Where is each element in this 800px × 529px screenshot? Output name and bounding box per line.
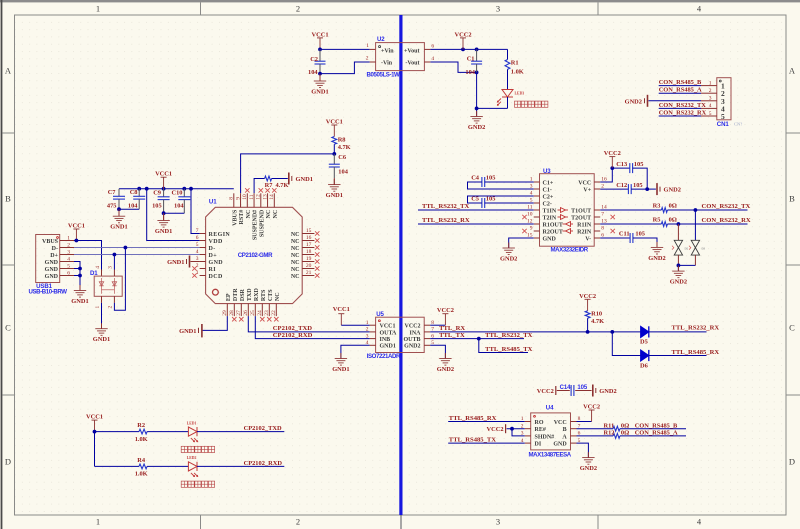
svg-text:VCC2: VCC2 xyxy=(405,324,421,330)
svg-text:GND: GND xyxy=(45,260,59,266)
svg-text:GND: GND xyxy=(45,274,59,280)
svg-text:R11: R11 xyxy=(604,422,615,429)
svg-text:1: 1 xyxy=(196,270,199,276)
svg-text:3: 3 xyxy=(108,266,114,269)
svg-text:20: 20 xyxy=(306,263,312,269)
svg-text:T2IN: T2IN xyxy=(543,215,557,221)
svg-text:REGIN: REGIN xyxy=(209,232,231,238)
svg-text:CN1: CN1 xyxy=(717,121,730,128)
svg-text:5: 5 xyxy=(709,111,712,117)
svg-text:C1: C1 xyxy=(467,56,475,63)
svg-text:3: 3 xyxy=(709,96,712,102)
svg-text:CP2102_RXD: CP2102_RXD xyxy=(244,460,283,467)
svg-text:1: 1 xyxy=(366,43,369,49)
svg-text:C2-: C2- xyxy=(543,201,552,207)
svg-text:GND1: GND1 xyxy=(179,328,196,335)
svg-text:A: A xyxy=(789,66,796,76)
svg-text:C13: C13 xyxy=(616,161,627,168)
svg-text:NC: NC xyxy=(273,210,279,219)
svg-text:C2: C2 xyxy=(310,56,318,63)
svg-text:DSR: DSR xyxy=(240,288,246,301)
svg-text:2: 2 xyxy=(709,88,712,94)
svg-text:A: A xyxy=(562,434,567,440)
svg-text:15: 15 xyxy=(306,228,312,234)
svg-text:GND2: GND2 xyxy=(664,187,681,194)
svg-text:1: 1 xyxy=(96,4,100,14)
svg-text:VBUS: VBUS xyxy=(42,239,59,245)
svg-text:475: 475 xyxy=(107,203,117,210)
svg-text:VCC: VCC xyxy=(578,180,591,186)
svg-text:D+: D+ xyxy=(209,253,218,259)
svg-text:NC: NC xyxy=(291,246,300,252)
svg-text:INA: INA xyxy=(409,330,421,336)
svg-text:2: 2 xyxy=(366,56,369,62)
svg-text:VCC1: VCC1 xyxy=(68,223,85,230)
svg-text:GND1: GND1 xyxy=(93,336,110,343)
svg-text:A: A xyxy=(5,66,12,76)
svg-text:C2+: C2+ xyxy=(543,194,554,200)
svg-text:OUTB: OUTB xyxy=(403,337,420,343)
svg-text:104: 104 xyxy=(338,169,348,176)
svg-text:NC: NC xyxy=(291,232,300,238)
svg-text:4.7K: 4.7K xyxy=(338,144,351,151)
svg-text:V+: V+ xyxy=(583,187,591,193)
svg-text:NC: NC xyxy=(291,267,300,273)
svg-text:VCC1: VCC1 xyxy=(311,31,328,38)
svg-text:GND1: GND1 xyxy=(326,192,343,199)
svg-text:GND1: GND1 xyxy=(296,176,313,183)
svg-text:B: B xyxy=(563,427,567,433)
svg-text:3: 3 xyxy=(496,4,500,14)
svg-text:11: 11 xyxy=(249,194,255,200)
svg-text:VCC1: VCC1 xyxy=(155,171,172,178)
svg-text:VCC2: VCC2 xyxy=(437,307,454,314)
svg-text:C: C xyxy=(789,323,795,333)
svg-text:VCC2: VCC2 xyxy=(537,388,554,395)
svg-text:NC: NC xyxy=(291,260,300,266)
svg-text:D-: D- xyxy=(209,246,216,252)
svg-text:T2OUT: T2OUT xyxy=(571,215,591,221)
svg-text:7: 7 xyxy=(196,228,199,234)
svg-text:13: 13 xyxy=(262,194,268,200)
svg-text:0Ω: 0Ω xyxy=(621,422,629,429)
svg-text:VCC2: VCC2 xyxy=(487,426,504,433)
svg-text:4.7K: 4.7K xyxy=(591,318,604,325)
svg-text:R2: R2 xyxy=(137,422,145,429)
svg-text:C1-: C1- xyxy=(543,187,552,193)
svg-text:U3: U3 xyxy=(543,168,551,175)
svg-text:CP2102-GMR: CP2102-GMR xyxy=(238,252,273,259)
svg-text:VCC2: VCC2 xyxy=(583,404,600,411)
svg-text:CON_RS485_B: CON_RS485_B xyxy=(659,79,702,86)
svg-text:NC: NC xyxy=(275,292,281,301)
svg-text:0Ω: 0Ω xyxy=(621,430,629,437)
svg-text:MAX3232EIDR: MAX3232EIDR xyxy=(551,247,589,254)
svg-text:TTL_RS232_TX: TTL_RS232_TX xyxy=(422,203,470,210)
svg-text:C12: C12 xyxy=(616,182,627,189)
svg-text:4.7K: 4.7K xyxy=(276,182,289,189)
svg-text:D2: D2 xyxy=(685,247,689,251)
svg-text:U2: U2 xyxy=(377,36,385,43)
svg-text:R5: R5 xyxy=(653,217,661,224)
svg-text:-Vout: -Vout xyxy=(405,61,419,67)
svg-text:GND2: GND2 xyxy=(580,465,597,472)
svg-text:CTS: CTS xyxy=(268,289,274,301)
svg-text:105: 105 xyxy=(152,203,162,210)
svg-text:C: C xyxy=(5,323,11,333)
svg-text:6: 6 xyxy=(196,235,199,241)
svg-text:U5: U5 xyxy=(376,311,384,318)
svg-text:-Vin: -Vin xyxy=(381,61,393,67)
svg-text:5: 5 xyxy=(721,112,725,121)
svg-text:OUTA: OUTA xyxy=(380,330,398,336)
svg-text:VCC2: VCC2 xyxy=(454,31,471,38)
svg-text:23: 23 xyxy=(264,310,270,316)
svg-text:8: 8 xyxy=(229,197,235,200)
svg-text:TTL_RS485_RX: TTL_RS485_RX xyxy=(449,415,497,422)
svg-text:RTS: RTS xyxy=(261,289,267,301)
svg-text:27: 27 xyxy=(236,310,242,316)
svg-text:C11: C11 xyxy=(619,231,630,238)
svg-text:GND1: GND1 xyxy=(311,89,328,96)
svg-text:SUSPEND#: SUSPEND# xyxy=(253,210,259,240)
svg-text:2: 2 xyxy=(366,327,369,333)
svg-text:V-: V- xyxy=(585,236,591,242)
svg-text:SHDN#: SHDN# xyxy=(535,434,555,440)
svg-text:C10: C10 xyxy=(172,190,183,197)
svg-text:GND1: GND1 xyxy=(155,228,172,235)
svg-text:LED2: LED2 xyxy=(187,456,197,460)
svg-text:22: 22 xyxy=(271,310,277,316)
svg-text:D6: D6 xyxy=(640,363,649,370)
svg-text:D: D xyxy=(789,457,795,467)
svg-text:RO: RO xyxy=(535,420,544,426)
svg-text:TTL_RS485_TX: TTL_RS485_TX xyxy=(449,437,497,444)
svg-text:D3: D3 xyxy=(702,247,706,251)
svg-text:1.0K: 1.0K xyxy=(511,68,524,75)
svg-text:GND: GND xyxy=(45,267,59,273)
svg-text:28: 28 xyxy=(229,310,235,316)
svg-text:16: 16 xyxy=(306,235,312,241)
svg-text:8: 8 xyxy=(601,226,604,232)
svg-text:EP: EP xyxy=(226,293,232,301)
svg-text:GND2: GND2 xyxy=(437,366,454,373)
svg-text:6: 6 xyxy=(67,270,70,276)
svg-text:B: B xyxy=(5,194,11,204)
svg-text:RST#: RST# xyxy=(239,210,245,225)
svg-text:GND2: GND2 xyxy=(404,344,420,350)
svg-text:CON_RS485_A: CON_RS485_A xyxy=(635,430,678,437)
svg-text:TXD: TXD xyxy=(247,288,253,301)
svg-text:R1: R1 xyxy=(511,60,519,67)
svg-text:CP2102_TXD: CP2102_TXD xyxy=(244,425,282,432)
svg-text:DI: DI xyxy=(535,442,542,448)
svg-text:CP2102_RXD: CP2102_RXD xyxy=(273,332,313,339)
svg-text:6: 6 xyxy=(431,44,434,50)
svg-text:TTL_RS232_RX: TTL_RS232_RX xyxy=(422,217,470,224)
svg-text:R8: R8 xyxy=(338,136,346,143)
svg-text:D5: D5 xyxy=(640,338,648,345)
svg-text:2: 2 xyxy=(67,242,70,248)
svg-text:C5: C5 xyxy=(471,196,479,203)
svg-text:D1: D1 xyxy=(90,270,98,277)
svg-text:R2OUT: R2OUT xyxy=(543,229,563,235)
svg-text:105: 105 xyxy=(577,385,587,391)
svg-text:GND2: GND2 xyxy=(500,256,517,263)
svg-text:TTL_RS485_RX: TTL_RS485_RX xyxy=(672,349,720,356)
svg-text:3: 3 xyxy=(366,333,369,339)
svg-text:29: 29 xyxy=(222,310,228,316)
svg-text:D-: D- xyxy=(52,246,58,252)
svg-text:GND: GND xyxy=(553,442,567,448)
svg-text:17: 17 xyxy=(306,242,312,248)
svg-text:R4: R4 xyxy=(137,457,146,464)
svg-text:VCC1: VCC1 xyxy=(86,414,103,421)
svg-text:GND1: GND1 xyxy=(71,298,88,305)
svg-text:DTR: DTR xyxy=(233,288,239,301)
svg-text:104: 104 xyxy=(174,203,184,210)
svg-text:104: 104 xyxy=(128,203,138,210)
svg-text:2: 2 xyxy=(296,4,300,14)
svg-text:NC: NC xyxy=(246,210,252,219)
svg-text:GND1: GND1 xyxy=(332,366,349,373)
svg-text:GND: GND xyxy=(209,260,224,266)
svg-text:GND1: GND1 xyxy=(380,344,396,350)
svg-text:12: 12 xyxy=(256,194,262,200)
svg-text:NC: NC xyxy=(291,274,300,280)
svg-text:4: 4 xyxy=(67,256,70,262)
svg-text:10: 10 xyxy=(527,212,533,218)
svg-text:CON_RS232_TX: CON_RS232_TX xyxy=(702,203,751,210)
svg-text:VCC2: VCC2 xyxy=(604,150,621,157)
svg-text:18: 18 xyxy=(306,249,312,255)
svg-text:1: 1 xyxy=(709,80,712,86)
svg-text:104: 104 xyxy=(308,69,318,76)
svg-text:VCC1: VCC1 xyxy=(380,324,396,330)
svg-text:B: B xyxy=(789,194,795,204)
svg-text:104: 104 xyxy=(465,69,475,76)
svg-text:9: 9 xyxy=(530,226,533,232)
svg-text:VCC1: VCC1 xyxy=(326,119,343,126)
svg-text:LED1: LED1 xyxy=(187,421,197,425)
svg-text:B0505LS-1W: B0505LS-1W xyxy=(367,71,401,78)
svg-text:C7: C7 xyxy=(108,189,117,196)
svg-text:VBUS: VBUS xyxy=(232,209,238,226)
svg-text:9: 9 xyxy=(235,197,241,200)
svg-text:2: 2 xyxy=(296,517,300,527)
svg-text:R1IN: R1IN xyxy=(577,222,592,228)
svg-text:RE#: RE# xyxy=(535,427,546,433)
svg-text:R2IN: R2IN xyxy=(577,229,592,235)
svg-text:C6: C6 xyxy=(338,154,347,161)
svg-text:GND2: GND2 xyxy=(670,279,687,286)
svg-text:2: 2 xyxy=(108,306,114,309)
svg-text:4: 4 xyxy=(95,266,101,269)
svg-text:NC: NC xyxy=(266,210,272,219)
svg-text:INB: INB xyxy=(380,337,391,343)
svg-text:R12: R12 xyxy=(604,430,615,437)
svg-text:2: 2 xyxy=(196,263,199,269)
svg-text:0Ω: 0Ω xyxy=(669,203,677,210)
svg-text:R3: R3 xyxy=(653,203,661,210)
svg-text:R1OUT: R1OUT xyxy=(543,222,563,228)
svg-text:USB-B10-BRW: USB-B10-BRW xyxy=(29,289,68,296)
svg-text:1: 1 xyxy=(67,235,70,241)
svg-text:RI: RI xyxy=(209,267,217,273)
svg-text:19: 19 xyxy=(306,256,312,262)
svg-text:TTL_TX: TTL_TX xyxy=(439,332,465,339)
svg-text:GND2: GND2 xyxy=(648,255,665,262)
svg-text:GND1: GND1 xyxy=(110,224,127,231)
svg-text:T1OUT: T1OUT xyxy=(571,208,591,214)
svg-text:7: 7 xyxy=(601,212,604,218)
svg-text:C9: C9 xyxy=(153,190,161,197)
svg-text:3: 3 xyxy=(67,249,70,255)
svg-text:GND2: GND2 xyxy=(468,124,485,131)
svg-text:NC: NC xyxy=(291,239,300,245)
svg-text:GND2: GND2 xyxy=(625,98,642,105)
svg-text:NC: NC xyxy=(291,253,300,259)
svg-text:TTL_RS232_RX: TTL_RS232_RX xyxy=(672,325,720,332)
svg-text:24: 24 xyxy=(257,310,263,316)
svg-text:14: 14 xyxy=(269,194,275,200)
svg-text:D: D xyxy=(5,457,11,467)
svg-text:C8: C8 xyxy=(130,189,138,196)
svg-text:4: 4 xyxy=(709,103,712,109)
svg-text:1.0K: 1.0K xyxy=(135,436,148,443)
svg-text:R10: R10 xyxy=(591,311,602,318)
svg-text:TTL_RS232_TX: TTL_RS232_TX xyxy=(485,332,533,339)
svg-text:10: 10 xyxy=(242,194,248,200)
svg-text:105: 105 xyxy=(634,161,644,168)
svg-text:LED3: LED3 xyxy=(515,92,525,96)
svg-text:GND: GND xyxy=(543,236,557,242)
svg-text:CON_RS485_A: CON_RS485_A xyxy=(659,87,702,94)
svg-text:U4: U4 xyxy=(546,405,554,412)
svg-text:C4: C4 xyxy=(471,174,480,181)
svg-text:SUSPEND: SUSPEND xyxy=(259,209,265,237)
svg-text:VCC2: VCC2 xyxy=(579,293,596,300)
svg-text:1.0K: 1.0K xyxy=(135,471,148,478)
svg-text:1: 1 xyxy=(96,517,100,527)
svg-text:CN?: CN? xyxy=(734,122,742,127)
svg-text:CON_RS232_RX: CON_RS232_RX xyxy=(659,109,707,116)
svg-text:105: 105 xyxy=(635,231,645,238)
svg-text:DCD: DCD xyxy=(209,274,223,280)
svg-text:4: 4 xyxy=(431,56,434,62)
svg-text:1: 1 xyxy=(95,306,101,309)
svg-text:MAX13487EESA: MAX13487EESA xyxy=(529,451,572,458)
svg-text:105: 105 xyxy=(633,182,643,189)
svg-text:3: 3 xyxy=(496,517,500,527)
svg-text:GND1: GND1 xyxy=(167,259,184,266)
svg-text:CON_RS485_B: CON_RS485_B xyxy=(635,422,678,429)
svg-text:VDD: VDD xyxy=(209,239,223,245)
svg-text:VCC: VCC xyxy=(554,420,567,426)
svg-text:+Vout: +Vout xyxy=(404,48,420,54)
svg-text:CON_RS232_TX: CON_RS232_TX xyxy=(659,102,707,109)
svg-text:25: 25 xyxy=(250,310,256,316)
svg-text:T1IN: T1IN xyxy=(543,208,557,214)
svg-text:TTL_RS485_TX: TTL_RS485_TX xyxy=(485,346,533,353)
svg-text:VCC1: VCC1 xyxy=(333,306,350,313)
svg-text:D+: D+ xyxy=(50,253,58,259)
svg-text:+Vin: +Vin xyxy=(381,48,394,54)
svg-text:5: 5 xyxy=(67,263,70,269)
svg-text:U1: U1 xyxy=(209,199,217,206)
svg-text:C14: C14 xyxy=(560,385,571,391)
svg-text:21: 21 xyxy=(306,270,312,276)
svg-text:ISO7221ADR: ISO7221ADR xyxy=(367,353,401,360)
svg-text:GND2: GND2 xyxy=(599,388,616,395)
svg-text:C1+: C1+ xyxy=(543,180,554,186)
svg-text:RXD: RXD xyxy=(254,287,260,301)
svg-text:CON_RS232_RX: CON_RS232_RX xyxy=(702,217,751,224)
svg-text:0Ω: 0Ω xyxy=(669,217,677,224)
svg-text:105: 105 xyxy=(486,174,496,181)
svg-text:26: 26 xyxy=(243,310,249,316)
svg-text:105: 105 xyxy=(486,196,496,203)
